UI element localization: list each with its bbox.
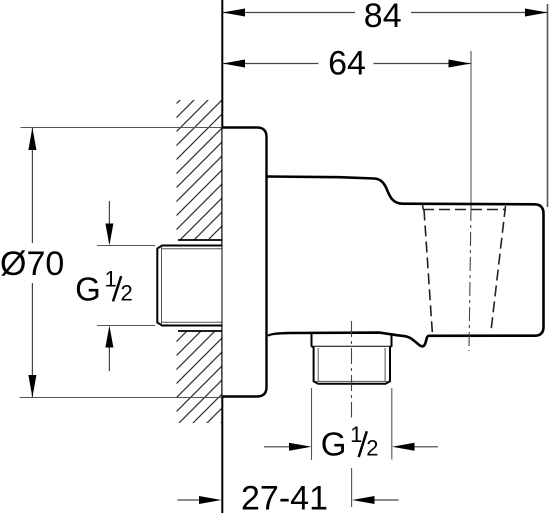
svg-text:G: G: [75, 271, 101, 308]
svg-text:64: 64: [328, 45, 366, 83]
svg-text:1: 1: [105, 266, 117, 291]
svg-text:Ø70: Ø70: [0, 245, 64, 283]
svg-text:1: 1: [350, 422, 362, 447]
svg-text:2: 2: [121, 281, 133, 306]
svg-text:G: G: [321, 426, 347, 463]
svg-text:27-41: 27-41: [241, 480, 328, 513]
svg-text:84: 84: [364, 0, 402, 35]
svg-text:2: 2: [366, 436, 378, 461]
